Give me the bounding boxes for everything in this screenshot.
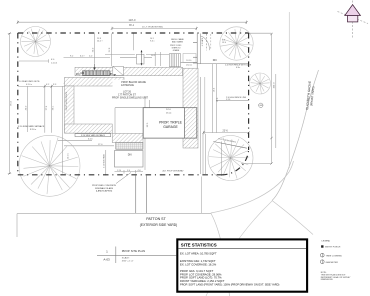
svg-text:EX. LOT COVERAGE: 16.2%: EX. LOT COVERAGE: 16.2% xyxy=(180,262,217,266)
svg-text:DN: DN xyxy=(76,73,80,76)
svg-text:3/32" = 1'-0": 3/32" = 1'-0" xyxy=(122,260,134,262)
svg-text:3'-10 SIDE YARD SETBACK: 3'-10 SIDE YARD SETBACK xyxy=(18,125,45,128)
X-box window well xyxy=(113,66,124,75)
sidewalk dim xyxy=(115,171,144,173)
front yard dim xyxy=(204,132,249,134)
gate arc xyxy=(201,36,210,50)
street curve crossing xyxy=(206,201,272,296)
house north wall band xyxy=(75,67,183,75)
svg-text:PROP. SINGLE DWELLING UNIT: PROP. SINGLE DWELLING UNIT xyxy=(112,97,148,100)
svg-text:105'-0: 105'-0 xyxy=(274,82,276,89)
Patton St edge line xyxy=(17,213,211,215)
walkway verticals xyxy=(196,34,198,78)
svg-text:GRADE: GRADE xyxy=(173,49,180,52)
tree canopy at (35.5,41.5) xyxy=(21,27,51,57)
top dimension line overall xyxy=(18,21,247,23)
tree canopy at (236.5,43.5) xyxy=(220,27,253,60)
svg-text:3'-10 SIDE YARD SETBACK: 3'-10 SIDE YARD SETBACK xyxy=(81,134,106,137)
small dim near tree T1 xyxy=(19,60,49,62)
note xyxy=(321,272,351,281)
south porch steps xyxy=(116,143,143,150)
right dimension line xyxy=(271,34,273,164)
svg-text:23'-4±: 23'-4± xyxy=(166,112,172,114)
property line north xyxy=(18,32,249,34)
svg-text:ENTRY PORCH: ENTRY PORCH xyxy=(325,247,341,249)
svg-text:DN: DN xyxy=(128,153,132,157)
svg-text:PROP. SITE PLAN: PROP. SITE PLAN xyxy=(122,249,145,253)
radius dimension diagonal xyxy=(213,142,247,149)
landing rect right of stairs xyxy=(183,54,196,63)
tree canopy at (49.5,165.8) xyxy=(19,135,80,196)
left verticals xyxy=(44,86,46,132)
concrete pad xyxy=(115,151,144,168)
svg-text:3'-10 SIDE YARD: 3'-10 SIDE YARD xyxy=(103,153,106,168)
svg-text:AND STAIRS: AND STAIRS xyxy=(172,40,183,43)
svg-text:23'-6: 23'-6 xyxy=(223,130,229,133)
svg-text:5'-10: 5'-10 xyxy=(226,99,230,101)
fence line with gate xyxy=(197,62,248,64)
svg-text:PROP. BELOW GRADE: PROP. BELOW GRADE xyxy=(121,81,146,84)
svg-text:5'-0: 5'-0 xyxy=(127,170,130,172)
left dimension line 75ft xyxy=(9,34,11,174)
street line vertical xyxy=(288,12,290,168)
curb arc at corner xyxy=(211,161,294,213)
driveway lines across boulevard xyxy=(135,176,137,214)
property corner arc SE xyxy=(222,150,249,175)
bay window xyxy=(137,54,145,64)
property line west xyxy=(17,33,19,175)
svg-text:GARAGE: GARAGE xyxy=(163,125,178,129)
svg-text:(EXTERIOR SIDE YARD): (EXTERIOR SIDE YARD) xyxy=(140,223,177,227)
svg-text:24'-0 ±: 24'-0 ± xyxy=(67,153,69,158)
svg-text:ALT. PROP DRIVEWAY: ALT. PROP DRIVEWAY xyxy=(163,170,185,173)
garage interior vert dim xyxy=(148,100,150,138)
svg-text:SIDEWALK SLABS: SIDEWALK SLABS xyxy=(95,187,114,190)
svg-text:4'-10 REAR YARD SETB.: 4'-10 REAR YARD SETB. xyxy=(17,80,40,83)
svg-text:36'-1: 36'-1 xyxy=(129,25,135,27)
dashed gate/fence lines xyxy=(205,34,207,51)
svg-text:41'-7 7/8 (EXISTING): 41'-7 7/8 (EXISTING) xyxy=(142,27,163,29)
house second north band xyxy=(65,77,125,86)
svg-text:(1'-6 ±): (1'-6 ±) xyxy=(186,65,192,67)
svg-text:LEGEND: LEGEND xyxy=(322,241,331,243)
gas meter GM xyxy=(259,103,263,107)
north stairs xyxy=(169,54,180,67)
svg-text:24'-0: 24'-0 xyxy=(166,109,172,111)
svg-text:1'-10: 1'-10 xyxy=(117,170,121,172)
svg-text:GAS METER: GAS METER xyxy=(326,261,339,264)
boulevard east line xyxy=(201,177,203,214)
top dimension line existing xyxy=(112,27,197,29)
svg-text:1'-10.5: 1'-10.5 xyxy=(51,63,58,65)
property line east xyxy=(248,33,250,150)
white box under below-grade text xyxy=(113,80,149,87)
svg-text:4'-10 ±: 4'-10 ± xyxy=(26,84,33,86)
street curve Patton south xyxy=(211,213,230,296)
svg-text:DN: DN xyxy=(213,58,217,62)
house west wall band xyxy=(65,86,75,133)
tree canopy at (260,83.5) xyxy=(250,73,271,94)
rear yard setback dim xyxy=(18,85,74,87)
svg-text:SCALE:: SCALE: xyxy=(122,257,130,260)
svg-text:75'-0: 75'-0 xyxy=(11,100,13,106)
street line SE going down xyxy=(272,201,313,235)
svg-text:PROPOSED CONCRETE: PROPOSED CONCRETE xyxy=(92,185,117,187)
svg-text:GM: GM xyxy=(259,105,262,107)
svg-text:110'-0: 110'-0 xyxy=(129,18,136,22)
svg-text:ENTRANCE: ENTRANCE xyxy=(121,84,134,87)
svg-text:DIMENSIONS: DIMENSIONS xyxy=(321,279,334,281)
house south wall band xyxy=(65,124,113,133)
south dims xyxy=(58,140,92,142)
below grade entrance ramp xyxy=(80,64,113,76)
north arrow xyxy=(338,1,369,38)
mid verticals right side xyxy=(212,64,214,133)
svg-text:EX. LOT AREA: 10,780 SQFT: EX. LOT AREA: 10,780 SQFT xyxy=(180,252,217,256)
tree canopy at (230.5,158) xyxy=(208,136,253,181)
leader sidewalk xyxy=(116,173,131,184)
svg-text:A-03: A-03 xyxy=(103,258,110,262)
property line south xyxy=(18,174,222,176)
svg-text:10'-10: 10'-10 xyxy=(186,60,191,62)
svg-text:9'-6 ±: 9'-6 ± xyxy=(150,41,154,43)
vertical dim left of pad xyxy=(105,150,107,176)
svg-text:(LANDSCAPING): (LANDSCAPING) xyxy=(96,190,113,193)
svg-text:EXIST. WOOD FENCE: EXIST. WOOD FENCE xyxy=(66,91,68,110)
north house dims xyxy=(64,57,111,59)
svg-text:SITE STATISTICS: SITE STATISTICS xyxy=(181,242,217,247)
svg-text:13'-4: 13'-4 xyxy=(222,42,226,44)
garage outline xyxy=(143,108,197,138)
svg-text:4'-8: 4'-8 xyxy=(138,170,141,172)
svg-text:6'-0±: 6'-0± xyxy=(236,67,240,69)
svg-text:PROP. SOFT LAND (FRONT YARD):: PROP. SOFT LAND (FRONT YARD): 100% (PROP… xyxy=(180,282,279,286)
house mid strip xyxy=(112,133,143,142)
street line Elizabeth Grove west edge xyxy=(272,70,319,201)
svg-text:TREE COVERED: TREE COVERED xyxy=(326,255,343,257)
svg-text:4'-0 GATE: 4'-0 GATE xyxy=(201,37,204,46)
house east wall band xyxy=(183,68,198,148)
svg-text:PATTON ST: PATTON ST xyxy=(146,217,166,221)
rear yard verticals xyxy=(94,34,96,64)
dimension tick marks xyxy=(8,21,272,175)
SE corner walkway verticals xyxy=(202,134,204,174)
svg-text:3'-10 ±: 3'-10 ± xyxy=(30,129,37,131)
